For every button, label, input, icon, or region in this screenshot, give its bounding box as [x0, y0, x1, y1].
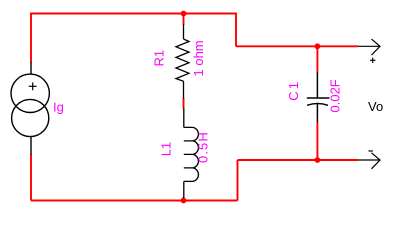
- junction dot top right node: [315, 43, 321, 49]
- wire inductor bottom stub: [183, 197, 185, 201]
- output arrow minus terminal: [358, 153, 380, 169]
- svg-text:0.5H: 0.5H: [196, 131, 211, 163]
- wire capacitor top stub: [316, 46, 318, 72]
- minus sign at output: [369, 150, 373, 152]
- junction dot top left node: [181, 11, 187, 17]
- svg-text:0.02F: 0.02F: [328, 79, 343, 112]
- wire top rail: [31, 13, 236, 15]
- capacitor C1: [307, 72, 330, 122]
- svg-text:1 ohm: 1 ohm: [191, 40, 206, 76]
- wire resistor top stub: [183, 14, 185, 26]
- output arrow plus terminal: [358, 39, 380, 55]
- junction dot bottom left node: [181, 198, 187, 204]
- junction dot bottom right node: [315, 157, 321, 163]
- inductor L1: [184, 108, 199, 198]
- wire top step down: [235, 13, 237, 47]
- wire bottom right rail: [238, 159, 359, 161]
- current source Ig: [11, 62, 49, 155]
- wire R1-L1 connection: [183, 98, 185, 109]
- svg-text:Vo: Vo: [368, 99, 383, 114]
- svg-text:C1: C1: [286, 80, 301, 101]
- svg-text:Ig: Ig: [53, 100, 64, 115]
- svg-text:R1: R1: [152, 50, 167, 67]
- wire bottom step up: [237, 160, 239, 201]
- wire bottom rail: [31, 200, 238, 202]
- wire top right rail: [236, 45, 358, 47]
- plus sign at output: [370, 58, 375, 63]
- wire capacitor bottom stub: [316, 121, 318, 160]
- wire left rail upper: [30, 13, 32, 63]
- resistor R1: [176, 24, 189, 99]
- svg-text:L1: L1: [159, 142, 174, 156]
- wire left rail lower: [30, 154, 32, 201]
